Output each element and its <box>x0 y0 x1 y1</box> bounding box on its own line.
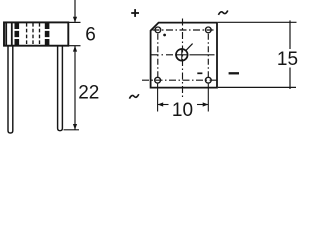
top view: vertical centreline through right pins <box>207 34 209 77</box>
label: ~ terminal (bottom-left) <box>129 94 138 98</box>
top view: vertical centreline through centre hole <box>182 19 184 100</box>
top view: square body with chamfered + corner <box>151 23 217 88</box>
dimension 10: right extension line <box>207 84 209 112</box>
top view: ~ terminal pin (bottom-left) <box>155 77 161 83</box>
top view: - terminal pin (bottom-right) <box>205 77 211 83</box>
side view: rectifier body outline <box>4 22 68 45</box>
top view: centre mounting hole <box>175 48 188 61</box>
svg-text:6: 6 <box>85 25 96 46</box>
dimension 6: bottom edge extension line <box>68 45 80 47</box>
dimension 15: top extension line <box>218 21 297 23</box>
side view: right lead <box>58 46 63 131</box>
dimension 22: lead-end extension tick <box>64 129 80 131</box>
dimension 6: top edge extension line <box>68 21 80 23</box>
dimension 15: dimension line with end ticks <box>289 20 291 89</box>
svg-text:15: 15 <box>277 49 298 70</box>
dimension 10: value label <box>172 100 193 121</box>
top view: + terminal pin (top-left) <box>155 27 161 33</box>
dimension 10: dimension line with arrows <box>158 102 209 106</box>
top view: + polarity dot near top-left pin <box>163 34 166 37</box>
top view: horizontal centreline through top pins <box>153 29 216 31</box>
dimension 15: bottom extension line <box>218 86 296 88</box>
top view: vertical centreline through left pins <box>157 34 159 77</box>
dimension 22: dimension line with arrows <box>73 46 77 130</box>
top view: ~ terminal pin (top-right) <box>205 27 211 33</box>
side view: left lead <box>8 46 13 133</box>
dimension 10: left extension line <box>157 84 159 112</box>
dimension 6: upper extension/arrow line <box>73 0 77 22</box>
dimension 22: value label <box>78 83 99 104</box>
top view: - polarity mark inside body <box>197 72 202 74</box>
side view: inner end-cap line <box>6 22 12 45</box>
label: + terminal <box>131 9 139 17</box>
side view: hidden mounting-hole lines (dashed) <box>17 23 47 46</box>
top view: hole leader tick <box>186 44 193 51</box>
dimension 6: value label <box>85 25 96 46</box>
label: ~ terminal (top) <box>218 11 227 15</box>
svg-text:10: 10 <box>172 100 193 121</box>
dimension 15: value label <box>277 49 298 70</box>
label: - terminal (right) <box>229 72 239 74</box>
top view: horizontal centreline through centre hole <box>152 54 215 56</box>
top view: horizontal centreline through bottom pins <box>142 79 218 81</box>
svg-text:22: 22 <box>78 83 99 104</box>
